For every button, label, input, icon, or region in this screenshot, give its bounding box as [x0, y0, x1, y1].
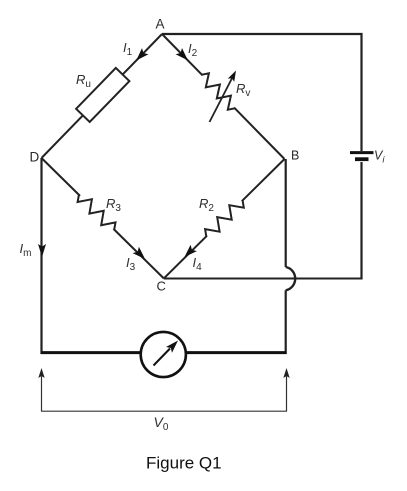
svg-text:Vi: Vi — [374, 149, 385, 166]
svg-text:I1: I1 — [123, 40, 133, 58]
svg-text:R3: R3 — [106, 196, 121, 214]
svg-text:V0: V0 — [154, 414, 169, 433]
svg-text:C: C — [157, 279, 166, 294]
svg-text:I3: I3 — [126, 255, 136, 273]
svg-text:D: D — [30, 150, 40, 165]
svg-text:B: B — [291, 149, 299, 163]
svg-text:I2: I2 — [188, 41, 198, 59]
svg-text:R2: R2 — [199, 196, 214, 214]
svg-text:Rv: Rv — [236, 81, 250, 99]
svg-text:A: A — [156, 17, 165, 32]
svg-text:Figure Q1: Figure Q1 — [146, 453, 222, 472]
svg-text:Ru: Ru — [76, 72, 91, 90]
svg-text:I4: I4 — [193, 255, 203, 273]
svg-text:Im: Im — [20, 241, 32, 259]
